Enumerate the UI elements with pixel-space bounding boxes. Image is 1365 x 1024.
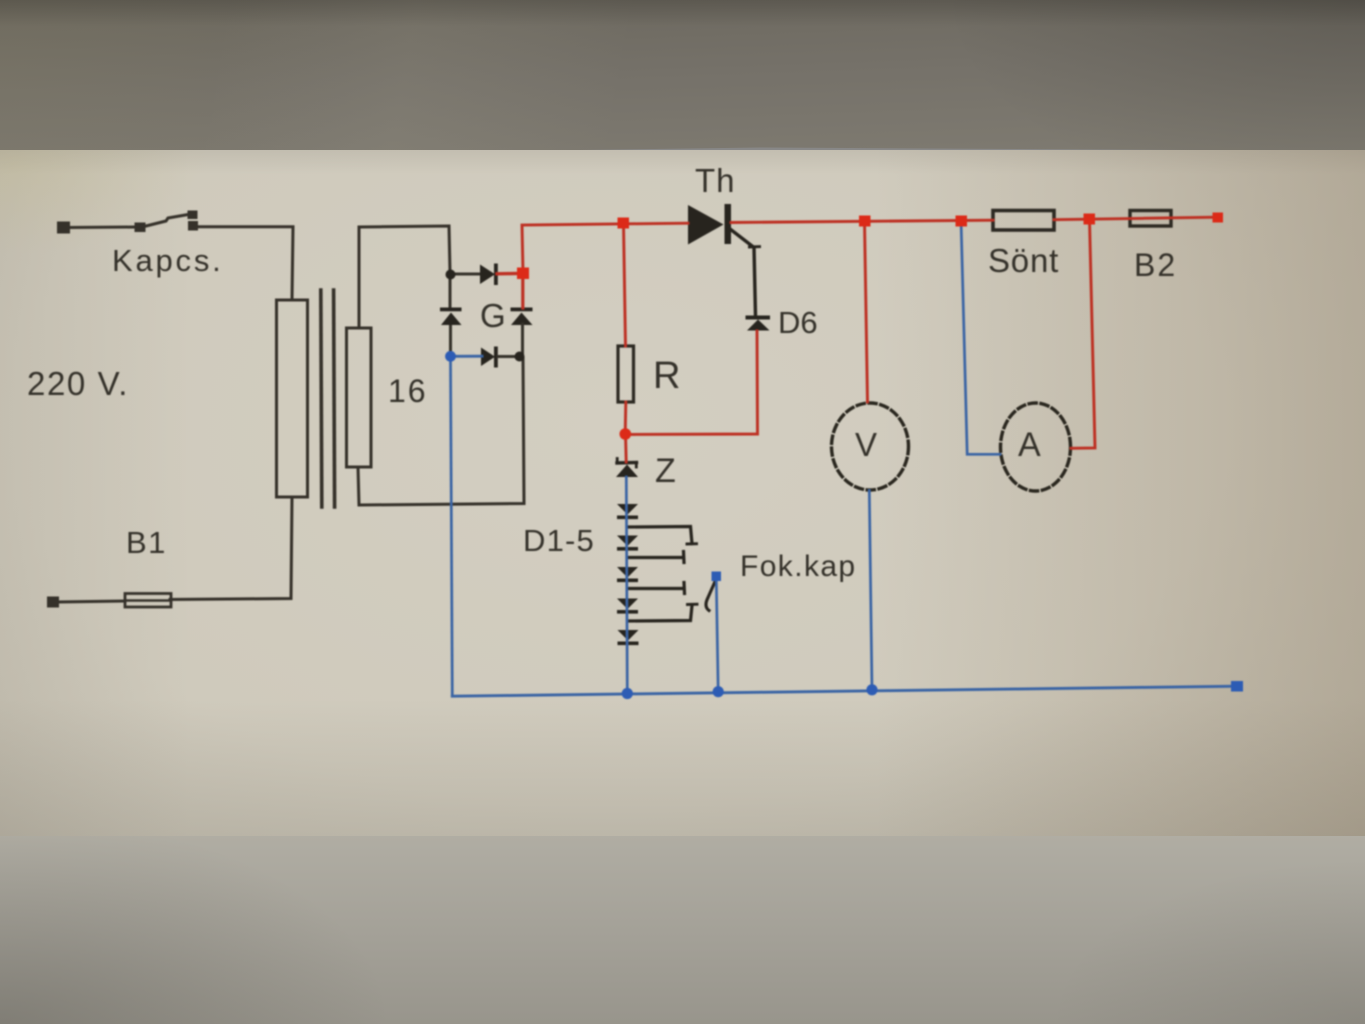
switch Fok.kap wiper arm xyxy=(706,581,716,611)
node: blue bus junction below V xyxy=(866,684,877,695)
transformer primary winding xyxy=(277,300,308,497)
wire mains top xyxy=(70,226,135,230)
wire blue: bridge bottom diode anode stub xyxy=(455,355,482,358)
wire bridge left leg upper xyxy=(449,273,452,309)
wire bridge left leg lower xyxy=(449,324,452,356)
svg-text:220 V.: 220 V. xyxy=(27,365,129,402)
wire red: R bottom to junction xyxy=(624,402,627,434)
switch Kapcs. lever end square xyxy=(188,211,198,220)
resistor R body xyxy=(618,346,634,402)
diode D5 xyxy=(618,630,639,641)
diode D6: bar and triangle (cathode up) xyxy=(746,316,771,320)
diode bridge G top: anode wire xyxy=(450,273,481,276)
node: bridge bottom-right junction dot xyxy=(515,352,525,362)
wire red: bridge node to right diode xyxy=(521,272,524,308)
wire fuse B1 to terminal xyxy=(59,601,125,602)
wire red rail: Sönt to B2 terminal xyxy=(1054,217,1215,220)
node: red junction rail/V xyxy=(859,216,871,227)
wire tap 2 of Fok.kap xyxy=(628,556,683,559)
wire blue: voltmeter V to bus xyxy=(869,491,872,690)
wire red: bridge top diode cathode stub xyxy=(497,272,518,276)
wire tap 4 of Fok.kap xyxy=(628,606,692,622)
diode bridge G bottom: cathode wire and triangle/bar xyxy=(481,348,495,367)
svg-text:V: V xyxy=(855,426,877,463)
svg-text:R: R xyxy=(653,355,680,397)
switch Kapcs. right terminal square xyxy=(188,221,198,231)
diode D3 xyxy=(617,567,638,578)
transformer secondary winding 16 xyxy=(347,328,372,467)
svg-text:B1: B1 xyxy=(126,525,167,560)
svg-text:A: A xyxy=(1018,426,1041,464)
shunt resistor Sönt body xyxy=(993,211,1054,231)
svg-text:16: 16 xyxy=(388,373,428,409)
node: Fok.kap wiper pivot xyxy=(712,572,722,582)
thyristor Th: anode triangle xyxy=(688,205,724,245)
node: blue bus junction below Fok.kap xyxy=(713,686,724,697)
ammeter A body xyxy=(1001,403,1071,491)
wire tap 1 of Fok.kap xyxy=(628,527,692,544)
svg-text:D6: D6 xyxy=(778,305,818,340)
diode bridge G left: bar and triangle (cathode up) xyxy=(440,308,462,312)
wire primary bottom to fuse B1 xyxy=(170,497,292,600)
node: bridge top-left junction dot xyxy=(446,270,456,280)
svg-text:Th: Th xyxy=(695,162,736,199)
node: red junction rail/A-blue xyxy=(956,216,968,227)
wire red rail: bridge output riser xyxy=(522,223,688,272)
svg-text:Sönt: Sönt xyxy=(988,242,1059,279)
wire switch to transformer xyxy=(198,227,293,300)
node: blue bus right terminal xyxy=(1231,681,1243,692)
wire blue: bridge minus to bottom bus xyxy=(451,360,453,696)
wire red rail: Th cathode to Sönt xyxy=(731,220,993,222)
wire secondary top loop xyxy=(359,226,450,328)
node: red bridge plus output xyxy=(517,268,529,280)
wire red: junction to zener Z xyxy=(624,434,628,462)
diode bridge G top: triangle and bar xyxy=(480,265,495,285)
thyristor Th: cathode bar xyxy=(725,204,732,244)
switch Kapcs. lever xyxy=(146,214,191,226)
svg-text:Fok.kap: Fok.kap xyxy=(740,550,857,583)
svg-text:B2: B2 xyxy=(1134,247,1177,283)
diode D4 xyxy=(617,599,638,610)
voltmeter V body xyxy=(832,403,909,490)
svg-text:D1-5: D1-5 xyxy=(523,523,595,558)
wire blue: Fok.kap wiper to bus xyxy=(716,580,718,692)
wire red: rail to voltmeter V xyxy=(865,222,868,403)
zener diode Z: bar with ticks and triangle (cathode up) xyxy=(617,461,637,465)
node: red junction rail/R xyxy=(618,218,630,229)
node: red terminal after B2 xyxy=(1213,213,1224,223)
transformer core xyxy=(321,290,322,507)
diode bridge G right: bar and triangle (cathode up) xyxy=(511,308,533,312)
wire blue: zener chain to bus xyxy=(626,477,627,694)
svg-text:G: G xyxy=(480,297,506,334)
node: red junction R/D6/Z xyxy=(620,428,632,440)
wire secondary bottom loop xyxy=(358,358,524,505)
diode D1 xyxy=(617,504,638,515)
node: left mains terminal xyxy=(57,222,70,234)
fuse B2 body xyxy=(1130,211,1171,227)
node: red junction rail/B2 xyxy=(1084,214,1096,225)
svg-text:Kapcs.: Kapcs. xyxy=(112,243,224,278)
node: blue bridge minus output xyxy=(445,351,456,362)
svg-text:Z: Z xyxy=(655,452,676,490)
node: left mains bottom terminal xyxy=(47,597,59,608)
wire tap 3 of Fok.kap xyxy=(628,587,684,590)
thyristor Th: gate wire xyxy=(730,229,756,316)
wire red: rail to ammeter A xyxy=(1071,220,1095,449)
node: blue bus junction below Z chain xyxy=(622,688,633,699)
wire bridge right leg lower xyxy=(521,324,524,358)
wire red: junction to D6 branch xyxy=(626,331,758,435)
wire red: rail to resistor R xyxy=(624,224,626,346)
diode D2 xyxy=(617,536,638,547)
wire blue: bottom bus xyxy=(452,686,1237,696)
wire blue: rail junction to ammeter A xyxy=(961,227,1000,454)
fuse B1 xyxy=(125,594,171,608)
switch Kapcs. contact square xyxy=(135,223,146,233)
